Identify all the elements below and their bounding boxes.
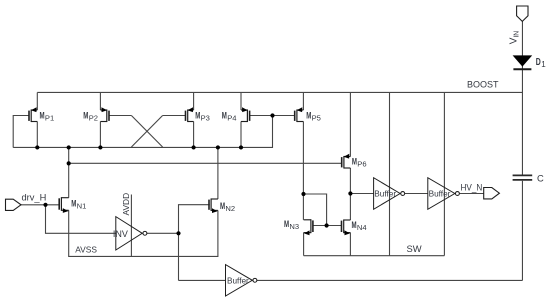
buffer U3 triangle [226,265,253,296]
wire to buffer U1 input [350,193,373,195]
node MN3 gate [325,223,329,227]
node INV output [176,231,180,235]
svg-text:INV: INV [113,229,128,239]
svg-text:N2: N2 [225,204,235,213]
wire MP2 source [99,92,101,110]
svg-text:Buffer: Buffer [227,275,249,285]
node drv_H junction [43,203,47,207]
buffer U1 triangle [374,178,401,210]
diode D1 triangle [514,56,531,66]
transistor MP3 [188,109,194,111]
wire MP3 drain [193,122,195,148]
wire MN3 gate-drain loop [303,194,326,226]
svg-text:N3: N3 [289,222,299,231]
node MP3 drain [192,145,196,149]
wire SW rail [304,255,445,257]
svg-text:N4: N4 [357,223,367,232]
wire buffer U2 to HV_N port [460,193,484,195]
wire INV output down to bottom buffer [178,233,180,280]
svg-text:Buffer: Buffer [429,188,451,198]
transistor MN1 [61,197,68,199]
wire cross-couple diagonal 2 [131,116,162,148]
wire MP4 drain [240,122,242,148]
buffer U1 bubble [401,192,405,196]
capacitor C bottom plate [513,179,533,181]
inverter INV bubble [143,231,147,235]
transistor MN3 [304,219,311,221]
wire node to MN2 gate [179,205,210,234]
svg-text:AVDD: AVDD [121,193,131,216]
svg-text:M: M [220,201,225,212]
svg-text:P3: P3 [201,114,210,123]
wire VIN to diode [521,21,523,56]
wire MP5 source [302,92,304,110]
node A2 [67,161,71,165]
node MN2 drain [216,145,220,149]
wire drv_H to MN1 gate [21,204,60,206]
wire MP4 source [240,92,242,110]
transistor MP2 [100,109,106,111]
node MP2 drain [98,145,102,149]
svg-text:P4: P4 [227,114,236,123]
svg-text:M: M [40,110,45,121]
node MP6 drain [348,191,352,195]
wire AVDD supply through INV [130,195,132,257]
svg-text:C: C [537,172,544,183]
svg-text:M: M [195,110,200,121]
svg-text:SW: SW [407,243,422,254]
svg-text:HV_N: HV_N [461,182,483,193]
wire MP2 drain [99,122,101,148]
wire node A2 to MP6 gate [69,162,342,164]
wire MP2 gate [109,115,131,117]
node MP4-MP5 gate [270,113,274,117]
svg-text:P6: P6 [357,160,366,169]
node MN3 drain [301,192,305,196]
wire MP1 drain [36,122,38,148]
svg-text:M: M [306,110,311,121]
wire MN3 source [303,233,305,256]
svg-text:M: M [222,110,227,121]
wire BOOST rail [37,91,522,93]
node MP4 drain [239,145,243,149]
wire buffer U1 to buffer U2 [405,193,428,195]
wire MP1 gate-drain loop [13,116,29,148]
wire MN2 drain up to rail [217,147,219,199]
wire MN1 drain up to rail [68,147,70,197]
diode D1 cathode bar [513,68,531,70]
buffer U3 bubble [253,278,257,282]
transistor MN2 [211,198,218,200]
port V_IN [517,6,528,21]
transistor MP6 [344,156,351,158]
wire INV output [147,232,179,234]
svg-text:M: M [352,157,357,168]
svg-text:D: D [536,56,541,68]
svg-text:AVSS: AVSS [75,245,97,255]
wire MP6 drain to MN4 drain [349,168,351,220]
wire MP1 source [36,92,38,110]
wire cross-couple diagonal 1 [131,116,162,148]
wire drv_H branch to INV input [46,205,116,234]
svg-text:1: 1 [541,60,546,69]
svg-text:P5: P5 [312,114,321,123]
svg-text:M: M [71,198,76,209]
wire MN1 source / AVSS rail / MN2 source [69,210,218,256]
wire MP5 drain to MN3 drain [302,122,304,220]
transistor MP5 [297,109,304,111]
svg-text:BOOST: BOOST [467,79,499,89]
wire to bottom buffer input [179,279,226,281]
wire BOOST-SW vertical 1 [389,92,391,255]
capacitor C top plate [513,174,533,176]
wire diode to capacitor [521,66,523,175]
transistor MN4 [344,219,351,221]
svg-text:P2: P2 [89,114,98,123]
svg-text:M: M [284,219,289,230]
wire capacitor to bottom [521,181,523,281]
svg-text:M: M [83,110,88,121]
transistor MP4 [241,109,247,111]
svg-text:Buffer: Buffer [374,188,396,198]
node A1 [67,145,71,149]
svg-text:P1: P1 [45,114,54,123]
inverter INV triangle [116,217,142,250]
buffer U2 triangle [428,178,455,210]
wire drain rail node A [13,116,272,148]
wire MN4 source [349,233,351,256]
wire MP4 gate to MP5 gate [250,115,295,117]
transistor MP1 [31,109,37,111]
wire to MP3 gate [163,115,186,117]
buffer U2 bubble [455,192,459,196]
wire MP3 source [193,92,195,110]
port drv_H [6,199,22,210]
node MP1 drain [35,145,39,149]
svg-text:M: M [352,220,357,231]
wire MP6 source to BOOST [349,92,351,156]
wire BOOST-SW vertical 2 [443,92,445,255]
port HV_N [484,188,500,199]
svg-text:N1: N1 [77,202,87,211]
wire MN3 gate to MN4 gate [313,225,341,227]
wire bottom buffer output to right [257,279,522,281]
svg-text:drv_H: drv_H [22,193,47,203]
